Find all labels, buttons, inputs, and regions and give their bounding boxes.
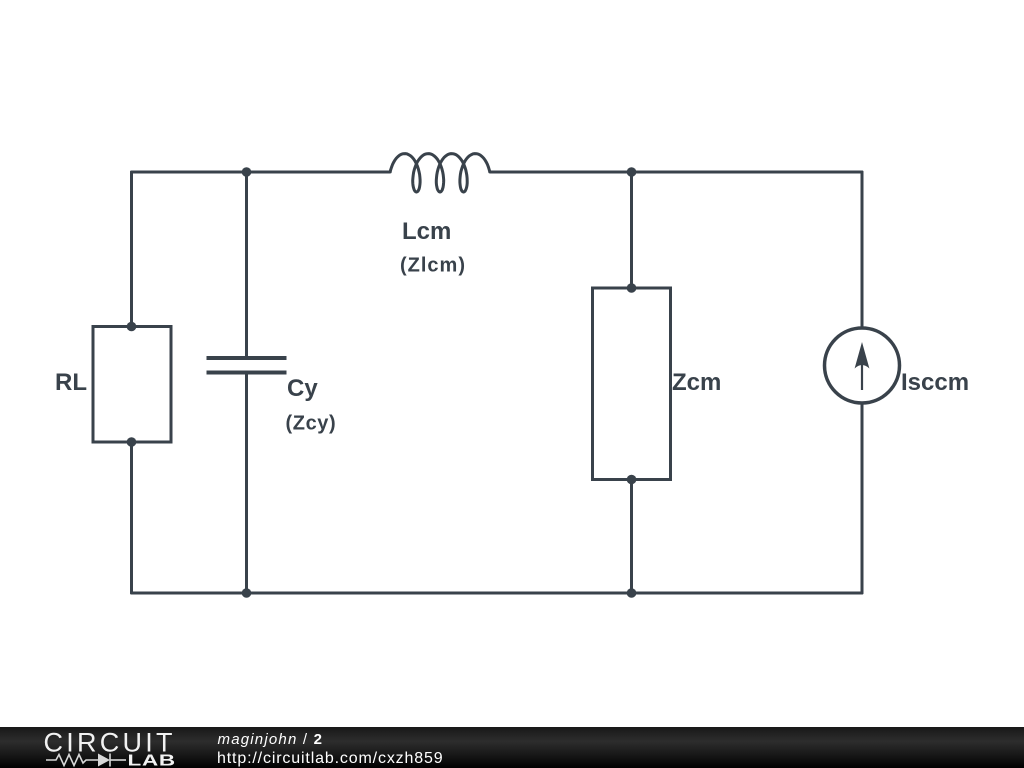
node top Zcm junction bbox=[627, 167, 637, 177]
node RL top pin bbox=[127, 322, 137, 332]
wire Isccm bottom lead bbox=[861, 403, 864, 593]
svg-text:(Zcy): (Zcy) bbox=[286, 413, 337, 435]
wire left vertical upper bbox=[130, 172, 133, 327]
wire bottom horizontal bbox=[132, 592, 863, 595]
node top cap junction bbox=[242, 167, 252, 177]
wire top-right horizontal bbox=[490, 171, 862, 174]
svg-text:maginjohn / 2: maginjohn / 2 bbox=[218, 731, 324, 748]
wire capacitor top lead bbox=[245, 172, 248, 358]
svg-text:Cy: Cy bbox=[287, 375, 318, 402]
wire Isccm top lead bbox=[861, 172, 864, 328]
logo resistor-diode squiggle bbox=[46, 754, 126, 767]
node junction dots bbox=[127, 167, 637, 598]
wire Zcm top lead bbox=[630, 172, 633, 288]
resistor RL bbox=[93, 327, 171, 443]
capacitor Cy bbox=[207, 358, 287, 373]
footer bar bbox=[0, 727, 1024, 768]
node Zcm bottom pin bbox=[627, 475, 637, 485]
node RL bottom pin bbox=[127, 437, 137, 447]
current source Isccm bbox=[825, 328, 900, 403]
svg-text:Zcm: Zcm bbox=[672, 369, 721, 396]
wire left vertical lower bbox=[130, 442, 133, 593]
wire capacitor bottom lead bbox=[245, 373, 248, 594]
svg-text:LAB: LAB bbox=[128, 753, 176, 768]
svg-text:Isccm: Isccm bbox=[901, 369, 969, 396]
node bottom cap junction bbox=[242, 588, 252, 598]
svg-text:Lcm: Lcm bbox=[402, 218, 451, 245]
impedance Zcm bbox=[593, 288, 671, 480]
wire top-left horizontal bbox=[132, 171, 391, 174]
svg-text:(Zlcm): (Zlcm) bbox=[400, 255, 466, 277]
current source arrow bbox=[861, 358, 863, 390]
node bottom Zcm junction bbox=[627, 588, 637, 598]
svg-text:RL: RL bbox=[55, 369, 87, 396]
svg-text:http://circuitlab.com/cxzh859: http://circuitlab.com/cxzh859 bbox=[217, 750, 444, 767]
wire Zcm bottom lead bbox=[630, 480, 633, 594]
inductor Lcm bbox=[390, 154, 490, 192]
node Zcm top pin bbox=[627, 283, 637, 293]
